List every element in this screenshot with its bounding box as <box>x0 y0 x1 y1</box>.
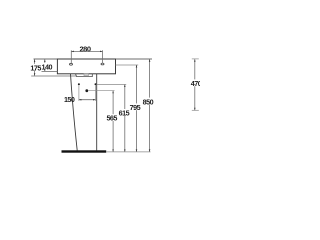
fixing bolt hole right <box>95 83 97 85</box>
wire: extension line basin mid level right <box>116 64 139 66</box>
svg-text:470: 470 <box>191 79 200 88</box>
dimension line 795 <box>136 65 138 152</box>
svg-text:615: 615 <box>119 108 130 117</box>
wire: floor extension line <box>106 151 150 153</box>
wire: top horizontal extension line along basin rim <box>34 58 153 60</box>
wire: 470 bottom tick <box>192 109 199 111</box>
tap hole left <box>70 63 73 65</box>
dimension line 150 <box>79 99 96 101</box>
svg-text:565: 565 <box>106 114 117 123</box>
wire: extension line drain level right <box>88 90 114 92</box>
drain hole <box>85 89 88 92</box>
wire: extension line from right tap hole up <box>102 50 104 63</box>
dimension line 140 (left) <box>44 60 46 72</box>
dimension line 850 <box>149 59 151 152</box>
wire: 175 end tick extending under basin <box>31 75 76 77</box>
svg-text:140: 140 <box>42 63 53 72</box>
svg-text:175: 175 <box>30 64 41 73</box>
svg-text:795: 795 <box>130 103 141 112</box>
dimension line 470 <box>194 59 196 110</box>
tap hole right <box>101 63 104 65</box>
floor bar (thick) <box>62 150 107 152</box>
wire: extension from right bolt down <box>95 86 97 101</box>
wire: extension from left bolt down <box>78 86 80 101</box>
svg-text:850: 850 <box>143 98 154 107</box>
wire: 140 end tick <box>42 70 58 72</box>
svg-text:280: 280 <box>79 45 90 54</box>
svg-text:150: 150 <box>64 95 75 104</box>
basin outline rectangle <box>57 59 115 74</box>
dimension line 280 <box>71 50 102 52</box>
basin underside drain tray <box>76 74 93 77</box>
dimension line 175 (left) <box>34 60 36 76</box>
fixing bolt hole left <box>78 83 80 85</box>
wire: 470 top tick <box>192 58 199 60</box>
pedestal right edge <box>96 74 98 151</box>
dimension line 565 <box>112 91 114 152</box>
pedestal left edge (curved) <box>71 74 78 150</box>
dimension line 615 <box>124 85 126 152</box>
wire: extension line from left tap hole up <box>70 50 72 63</box>
wire: extension line bolt level right <box>96 84 126 86</box>
